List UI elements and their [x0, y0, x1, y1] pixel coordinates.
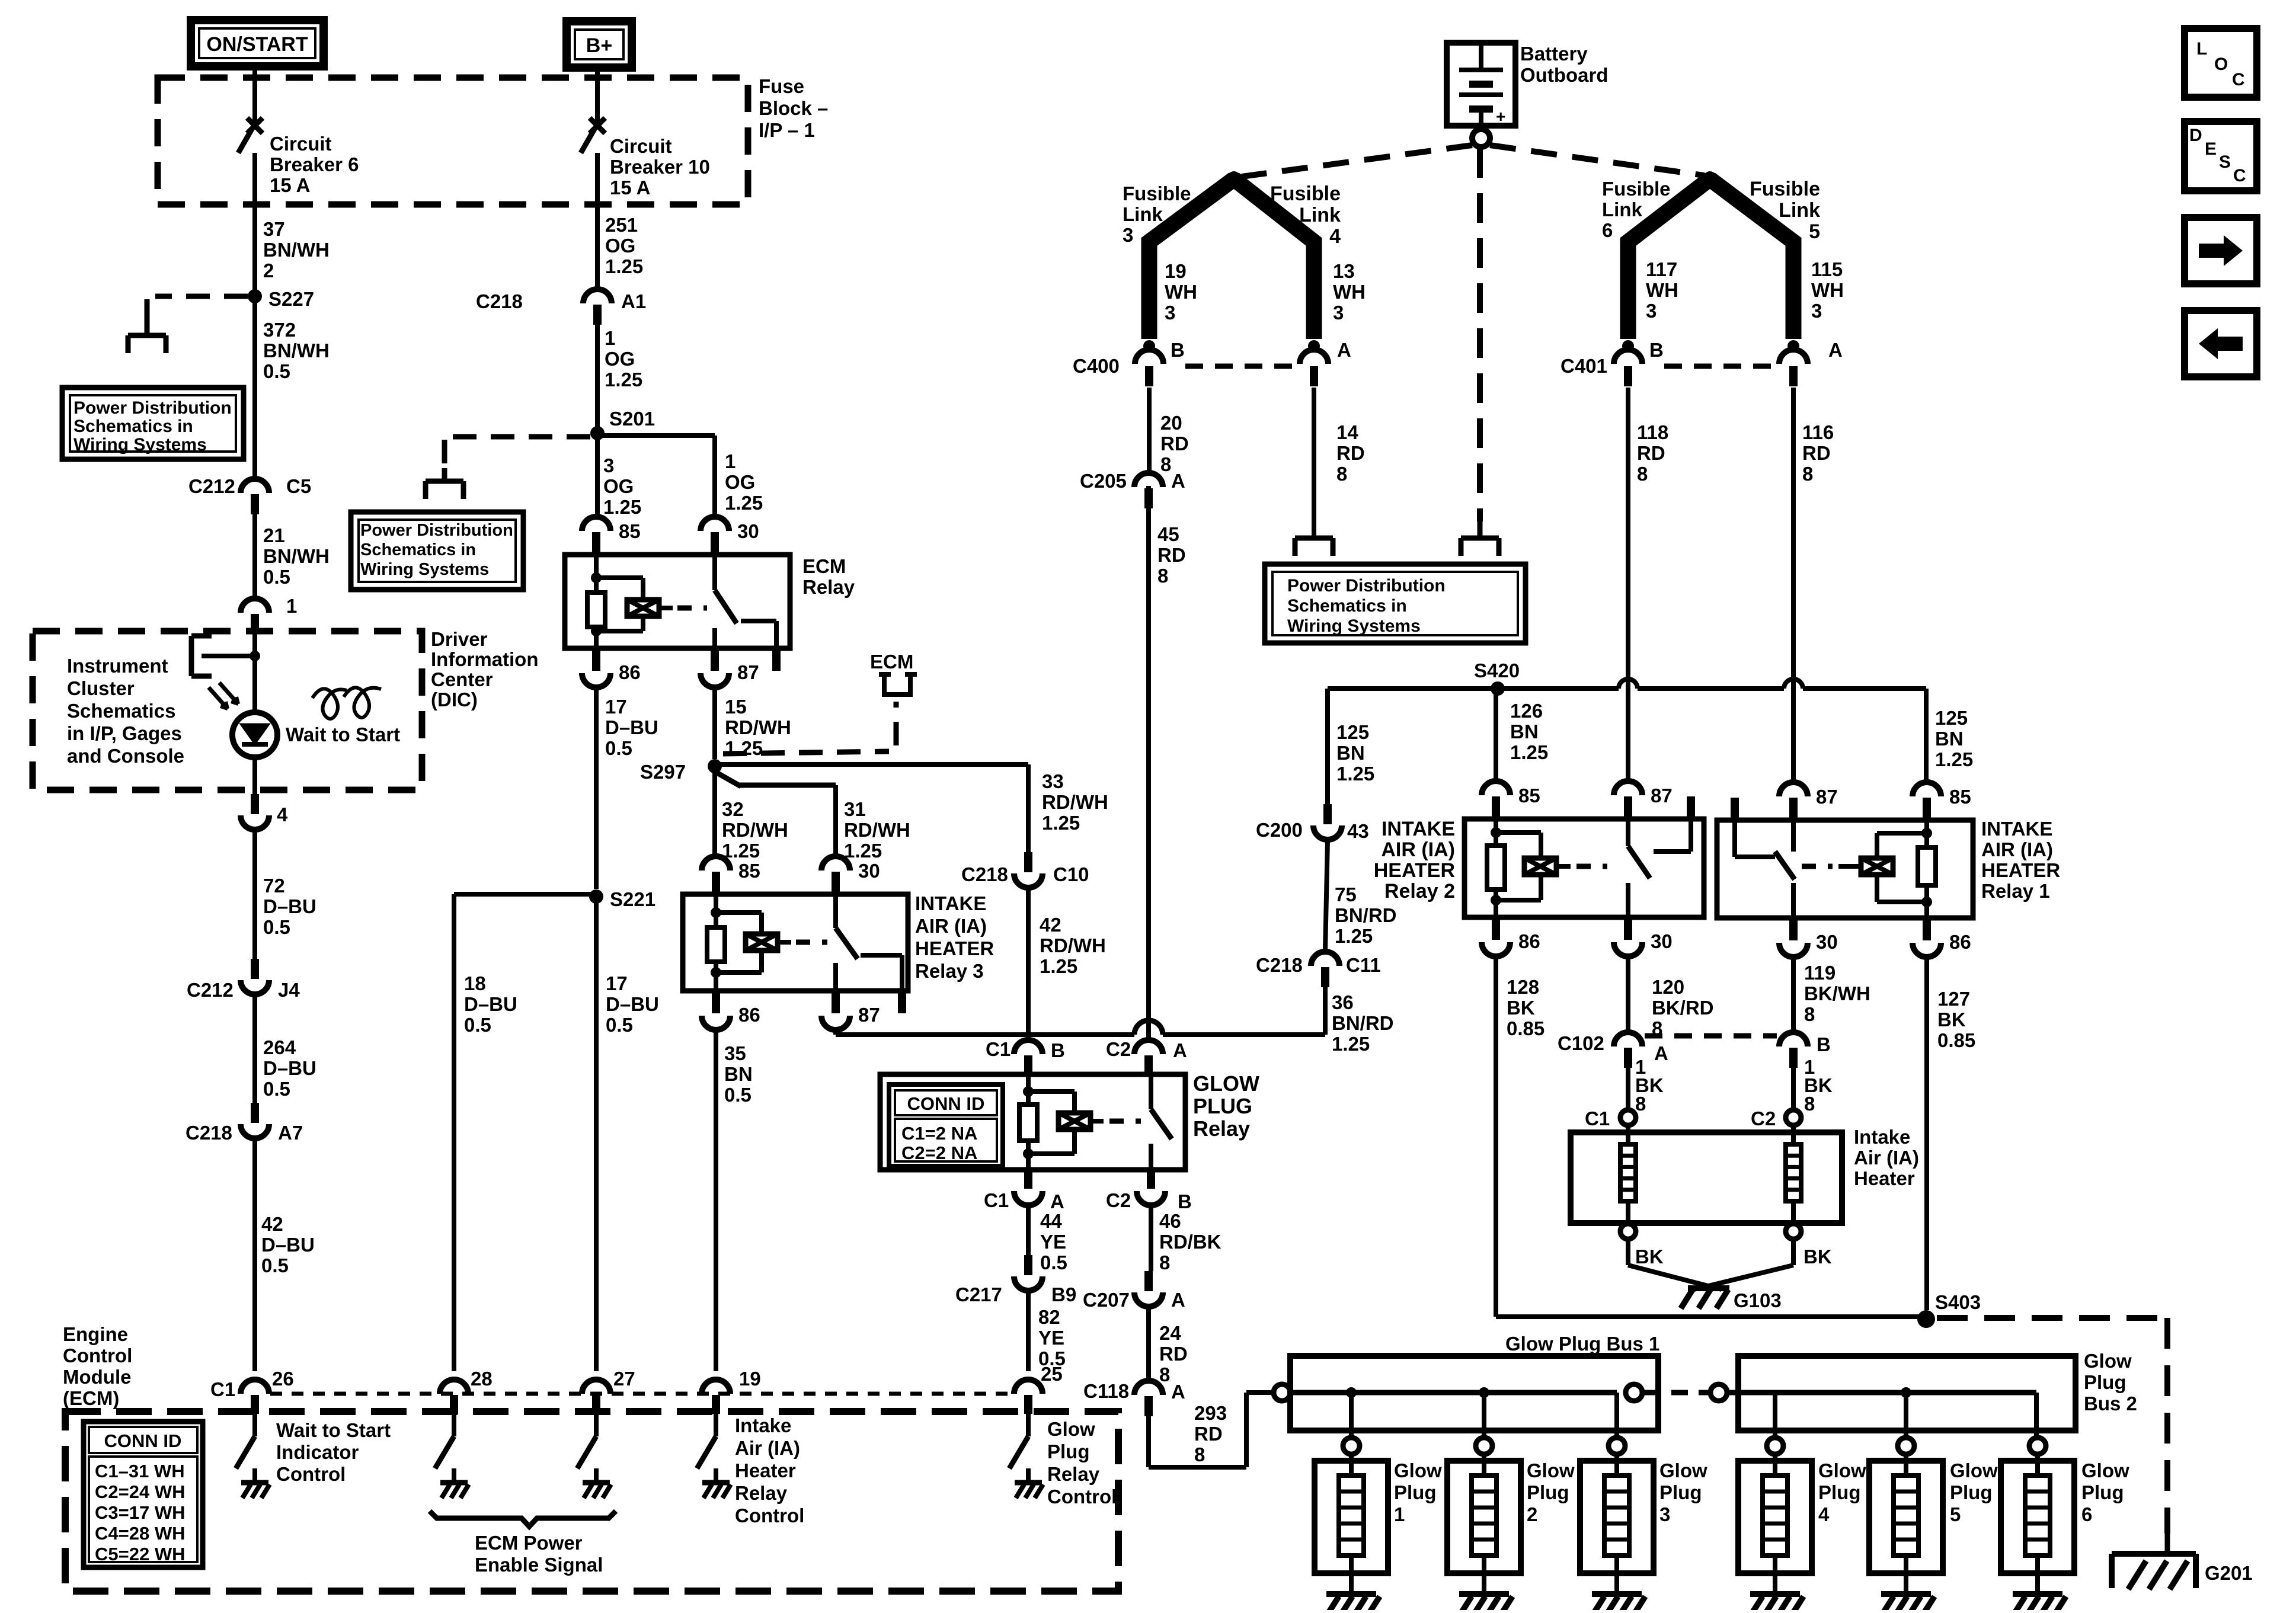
- svg-text:C207: C207: [1083, 1289, 1130, 1311]
- svg-text:119: 119: [1804, 962, 1835, 984]
- label wire 1 BK 8 (left): [1626, 1067, 1630, 1110]
- svg-text:0.5: 0.5: [263, 916, 290, 938]
- svg-text:Glow: Glow: [2084, 1350, 2132, 1372]
- svg-text:INTAKE: INTAKE: [1382, 818, 1455, 840]
- svg-text:Engine: Engine: [63, 1323, 128, 1345]
- fusible link 4: [1234, 179, 1314, 339]
- svg-text:251: 251: [605, 214, 638, 236]
- svg-text:A: A: [1171, 1289, 1185, 1311]
- svg-text:44: 44: [1040, 1210, 1062, 1232]
- svg-text:36: 36: [1332, 991, 1354, 1013]
- svg-text:B: B: [1817, 1033, 1831, 1055]
- wire S420 down to relay2 85: [1494, 689, 1498, 781]
- svg-text:Plug: Plug: [2081, 1481, 2124, 1503]
- label wire 20 RD 8: [1147, 388, 1152, 472]
- svg-text:30: 30: [858, 860, 880, 882]
- label wire 46 RD/BK 8: [1149, 1205, 1153, 1271]
- svg-text:3: 3: [1646, 300, 1657, 322]
- wire dashed battery to link5/6 peak: [1490, 145, 1704, 175]
- svg-text:Glow Plug Bus 1: Glow Plug Bus 1: [1505, 1333, 1659, 1355]
- svg-text:14: 14: [1336, 421, 1358, 443]
- node S227 splice: [248, 289, 262, 303]
- relay3 coil circuit: [714, 894, 718, 927]
- wire S420 corner to relay1 85: [1924, 689, 1929, 781]
- svg-text:C212: C212: [187, 979, 234, 1001]
- svg-text:0.85: 0.85: [1507, 1017, 1544, 1039]
- svg-text:BN: BN: [1510, 721, 1539, 743]
- label wire 118 RD 8: [1626, 388, 1630, 781]
- svg-text:120: 120: [1652, 976, 1684, 998]
- svg-text:C10: C10: [1053, 863, 1089, 885]
- pin C1 / A glow relay bottom: [1024, 1170, 1032, 1189]
- svg-text:Heater: Heater: [735, 1460, 796, 1481]
- svg-text:87: 87: [737, 661, 759, 683]
- connector C218 / A7: [251, 1103, 259, 1123]
- svg-text:Block –: Block –: [759, 97, 828, 119]
- wire S297 down to relay3 85: [712, 766, 717, 856]
- svg-text:1: 1: [286, 595, 297, 617]
- svg-text:86: 86: [1949, 931, 1971, 953]
- svg-text:Circuit: Circuit: [610, 135, 672, 157]
- svg-text:Relay: Relay: [1193, 1116, 1250, 1141]
- svg-text:S227: S227: [268, 288, 314, 310]
- node Power Distribution Schematics box (mid-left): [351, 512, 523, 590]
- node Power Distribution Schematics box (left): [62, 388, 244, 459]
- svg-text:117: 117: [1646, 258, 1677, 280]
- svg-text:WH: WH: [1811, 279, 1844, 301]
- svg-text:27: 27: [613, 1368, 635, 1390]
- svg-text:20: 20: [1160, 412, 1182, 434]
- svg-text:42: 42: [1040, 914, 1061, 936]
- bus box 1: [1290, 1356, 1658, 1430]
- connector C400 B: [1135, 350, 1163, 364]
- svg-text:Breaker 10: Breaker 10: [610, 156, 710, 178]
- connector C212 / C5: [252, 296, 257, 478]
- svg-text:Plug: Plug: [1659, 1481, 1702, 1503]
- label wire 120 BK/RD 8: [1626, 956, 1630, 1031]
- svg-text:YE: YE: [1040, 1231, 1066, 1253]
- svg-text:87: 87: [1816, 786, 1838, 808]
- svg-text:S403: S403: [1935, 1291, 1981, 1313]
- wire down to C200: [1325, 689, 1330, 804]
- svg-text:46: 46: [1159, 1210, 1181, 1232]
- svg-text:RD: RD: [1157, 544, 1186, 566]
- svg-text:Link: Link: [1123, 203, 1163, 225]
- svg-text:0.5: 0.5: [261, 1254, 289, 1276]
- svg-text:8: 8: [1635, 1093, 1646, 1115]
- svg-text:BN/WH: BN/WH: [263, 239, 330, 261]
- svg-text:D–BU: D–BU: [464, 993, 517, 1015]
- wires to G103: [1626, 1239, 1630, 1265]
- svg-text:ECM: ECM: [870, 651, 913, 673]
- label wire 82 YE 0.5 / 25: [1026, 1292, 1031, 1371]
- svg-text:118: 118: [1637, 421, 1668, 443]
- connector C1 / B glow relay top: [1026, 1035, 1031, 1039]
- fusible link 6: [1628, 179, 1710, 339]
- svg-text:Driver: Driver: [431, 628, 488, 650]
- wire dashed S297 to ECM pointer: [723, 751, 889, 754]
- svg-text:43: 43: [1347, 820, 1369, 842]
- svg-text:8: 8: [1159, 1364, 1170, 1385]
- wire LED down / connector 4: [252, 757, 257, 794]
- svg-text:4: 4: [1329, 225, 1341, 248]
- LED Wait to Start indicator: [232, 712, 277, 757]
- svg-text:17: 17: [606, 972, 628, 994]
- connector C218 / C10: [1024, 852, 1032, 872]
- svg-text:35: 35: [724, 1042, 746, 1064]
- svg-text:72: 72: [263, 875, 285, 897]
- svg-text:115: 115: [1811, 258, 1843, 280]
- svg-text:C2=24 WH: C2=24 WH: [95, 1481, 185, 1502]
- svg-text:4: 4: [277, 804, 288, 825]
- node Glow Plug Bus 2 box: [1738, 1356, 2076, 1430]
- svg-text:RD: RD: [1159, 1343, 1188, 1365]
- svg-text:Relay: Relay: [1047, 1463, 1100, 1485]
- svg-text:1.25: 1.25: [725, 492, 763, 514]
- svg-text:C118: C118: [1083, 1380, 1129, 1402]
- pin 87 relay2: [1614, 781, 1642, 795]
- svg-text:C4=28 WH: C4=28 WH: [95, 1523, 185, 1544]
- svg-text:6: 6: [2081, 1503, 2092, 1525]
- relay INTAKE AIR (IA) HEATER Relay 2 box: [1464, 819, 1704, 917]
- svg-text:RD/BK: RD/BK: [1159, 1231, 1221, 1253]
- svg-text:B9: B9: [1051, 1284, 1076, 1305]
- svg-text:87: 87: [1651, 785, 1673, 806]
- off-page fork 2: [442, 468, 447, 481]
- svg-text:BN: BN: [1336, 742, 1365, 764]
- svg-text:Control: Control: [1047, 1486, 1117, 1508]
- svg-text:0.5: 0.5: [724, 1084, 752, 1106]
- svg-text:ECM: ECM: [802, 555, 846, 577]
- svg-text:Schematics in: Schematics in: [73, 417, 193, 436]
- svg-text:87: 87: [858, 1004, 880, 1026]
- wire S201 right branch: [597, 433, 715, 438]
- svg-text:264: 264: [263, 1036, 296, 1058]
- svg-text:15 A: 15 A: [610, 177, 650, 199]
- connector C218 / A1: [583, 289, 612, 303]
- svg-text:CONN ID: CONN ID: [907, 1093, 985, 1114]
- svg-text:O: O: [2214, 55, 2228, 74]
- node S297 splice: [708, 759, 722, 773]
- svg-text:Plug: Plug: [1527, 1481, 1569, 1503]
- svg-text:Plug: Plug: [1818, 1481, 1861, 1503]
- wire 128 BK corner to S403: [1496, 1314, 1926, 1319]
- svg-text:BN/RD: BN/RD: [1332, 1012, 1394, 1034]
- svg-text:1.25: 1.25: [1335, 925, 1373, 947]
- svg-text:Fusible: Fusible: [1270, 183, 1341, 205]
- svg-text:C3=17 WH: C3=17 WH: [95, 1502, 185, 1523]
- svg-text:C218: C218: [186, 1122, 232, 1144]
- telltale lamp symbol: [312, 689, 347, 719]
- node S420 splice and feed line: [1328, 686, 1619, 691]
- svg-text:BN: BN: [724, 1063, 753, 1085]
- svg-text:(ECM): (ECM): [63, 1387, 119, 1409]
- svg-text:C1: C1: [1585, 1108, 1610, 1129]
- terminal rings bottom: [1620, 1224, 1636, 1239]
- wire 14 RD 8 to fork: [1312, 388, 1316, 521]
- svg-text:Fuse: Fuse: [759, 75, 804, 97]
- svg-text:3: 3: [1333, 302, 1344, 324]
- svg-text:S420: S420: [1474, 660, 1520, 681]
- pin stub unlabeled ECM relay: [772, 648, 781, 671]
- relay1 coil: [1861, 858, 1893, 875]
- svg-text:C1: C1: [984, 1189, 1009, 1211]
- svg-text:Glow: Glow: [1047, 1418, 1095, 1440]
- svg-text:15 A: 15 A: [270, 174, 310, 196]
- label wire 17 D-BU 0.5 (below S221): [594, 897, 599, 1371]
- label wire 24 RD 8: [1146, 1308, 1151, 1380]
- pin stub unlabeled relay2: [1687, 796, 1695, 819]
- svg-text:BN/RD: BN/RD: [1335, 904, 1397, 926]
- svg-text:0.5: 0.5: [606, 1014, 633, 1036]
- svg-text:OG: OG: [725, 471, 755, 493]
- svg-text:+: +: [1496, 107, 1505, 126]
- pin 87 ECM relay: [711, 648, 719, 671]
- svg-text:Relay 1: Relay 1: [1981, 880, 2050, 902]
- label wire 21 BN/WH 0.5: [252, 514, 257, 597]
- svg-text:YE: YE: [1038, 1327, 1064, 1349]
- svg-text:126: 126: [1510, 700, 1543, 722]
- svg-text:C: C: [2233, 166, 2246, 185]
- svg-text:B: B: [1649, 339, 1664, 361]
- svg-text:A: A: [1337, 339, 1351, 361]
- svg-text:BN/WH: BN/WH: [263, 545, 330, 567]
- terminal ring C1: [1620, 1110, 1636, 1125]
- svg-text:Control: Control: [63, 1345, 132, 1366]
- svg-text:4: 4: [1818, 1503, 1830, 1525]
- svg-text:3: 3: [1811, 300, 1822, 322]
- svg-text:in I/P, Gages: in I/P, Gages: [67, 722, 182, 744]
- svg-text:C1: C1: [210, 1378, 235, 1400]
- wire 45 RD 8 down to C2/A: [1146, 486, 1151, 1040]
- off-page fork to power distribution (battery): [1478, 521, 1483, 538]
- svg-text:Plug: Plug: [1950, 1481, 1993, 1503]
- node forward arrow box: [2185, 217, 2257, 284]
- pin C2 / B glow relay bottom: [1147, 1170, 1155, 1189]
- pin ECM: [1014, 1380, 1043, 1394]
- svg-text:8: 8: [1336, 463, 1347, 485]
- pin 85 relay3: [702, 856, 730, 870]
- circuit breaker CB10 (Circuit Breaker 10 15 A): [590, 118, 605, 133]
- glow plug 3: [1609, 1438, 1625, 1454]
- svg-text:Link: Link: [1299, 204, 1341, 226]
- svg-text:8: 8: [1194, 1444, 1205, 1465]
- svg-text:125: 125: [1336, 721, 1369, 743]
- svg-text:RD/WH: RD/WH: [1040, 934, 1106, 956]
- svg-text:Heater: Heater: [1854, 1167, 1915, 1189]
- node Instrument Cluster dashed box (DIC area): [33, 631, 422, 790]
- node CONN ID table ECM: [84, 1422, 203, 1567]
- svg-text:1.25: 1.25: [1040, 955, 1077, 977]
- svg-text:PLUG: PLUG: [1193, 1094, 1252, 1118]
- svg-text:E: E: [2205, 139, 2217, 159]
- battery terminal ring: [1472, 129, 1490, 147]
- off-page fork (14 RD): [1295, 536, 1333, 541]
- svg-text:G103: G103: [1734, 1289, 1782, 1311]
- svg-text:372: 372: [263, 319, 296, 341]
- svg-text:G201: G201: [2205, 1562, 2253, 1584]
- svg-text:21: 21: [263, 524, 285, 546]
- relay3 switch: [833, 894, 838, 928]
- wire tap bracket inside cluster: [191, 633, 212, 639]
- svg-text:30: 30: [737, 520, 759, 542]
- svg-text:85: 85: [738, 860, 760, 882]
- svg-text:Glow: Glow: [1527, 1460, 1575, 1481]
- svg-text:S201: S201: [609, 408, 655, 430]
- glow relay switch: [1149, 1075, 1153, 1109]
- svg-text:30: 30: [1651, 930, 1673, 952]
- svg-text:and Console: and Console: [67, 745, 184, 767]
- svg-text:Plug: Plug: [2084, 1371, 2126, 1393]
- svg-text:1: 1: [725, 450, 736, 472]
- relay ECM Relay box: [565, 555, 790, 648]
- svg-text:28: 28: [471, 1368, 493, 1390]
- svg-text:S: S: [2219, 152, 2231, 172]
- svg-text:Link: Link: [1602, 199, 1642, 220]
- label wire 3 OG 1.25: [595, 437, 600, 517]
- label wire 119 BK/WH 8: [1791, 957, 1796, 1031]
- label wire 44 YE 0.5: [1026, 1205, 1031, 1255]
- svg-text:Glow: Glow: [2081, 1460, 2129, 1481]
- svg-text:C1: C1: [986, 1038, 1011, 1060]
- wire C10 into junction: [1016, 1032, 1040, 1037]
- brace ECM Power Enable Signal: [430, 1511, 616, 1526]
- node Power Distribution Schematics box (middle): [1265, 564, 1526, 643]
- node back arrow box: [2185, 311, 2257, 377]
- terminal ring C2: [1786, 1110, 1801, 1125]
- svg-text:RD: RD: [1637, 442, 1665, 464]
- svg-text:3: 3: [1659, 1503, 1670, 1525]
- svg-text:Information: Information: [431, 648, 538, 670]
- svg-text:0.85: 0.85: [1937, 1029, 1975, 1051]
- svg-text:BN/WH: BN/WH: [263, 340, 330, 361]
- node ECM off-page pointer: [879, 674, 917, 695]
- svg-text:HEATER: HEATER: [915, 937, 994, 959]
- pin 30 relay1: [1789, 918, 1798, 940]
- svg-text:I/P – 1: I/P – 1: [759, 119, 815, 141]
- pin 30 relay2: [1624, 917, 1632, 940]
- label wire 35 BN 0.5: [714, 1030, 718, 1371]
- svg-text:Module: Module: [63, 1366, 131, 1388]
- svg-text:ECM Power: ECM Power: [475, 1532, 583, 1554]
- svg-text:86: 86: [1518, 930, 1540, 952]
- svg-text:J4: J4: [278, 979, 300, 1001]
- svg-text:Intake: Intake: [735, 1414, 791, 1436]
- svg-text:19: 19: [1165, 260, 1187, 282]
- svg-text:D–BU: D–BU: [263, 895, 316, 917]
- svg-text:C2=2 NA: C2=2 NA: [901, 1142, 977, 1163]
- pin 27 ECM: [582, 1380, 610, 1394]
- svg-text:B: B: [1171, 339, 1185, 361]
- svg-text:WH: WH: [1333, 281, 1366, 303]
- svg-text:C212: C212: [188, 475, 235, 497]
- svg-text:C11: C11: [1346, 954, 1381, 976]
- connector C205 A: [1134, 473, 1163, 487]
- node Fuse Block dashed box: [158, 78, 748, 204]
- node S221 splice: [589, 889, 603, 904]
- svg-text:A1: A1: [621, 290, 646, 312]
- svg-text:D: D: [2189, 126, 2202, 145]
- svg-text:82: 82: [1038, 1306, 1060, 1328]
- label wire 17 D-BU 0.5: [594, 687, 599, 889]
- svg-text:Breaker 6: Breaker 6: [270, 153, 359, 175]
- svg-text:0.5: 0.5: [263, 566, 290, 588]
- node S201 splice: [590, 426, 605, 440]
- relay INTAKE AIR (IA) HEATER Relay 1 box: [1717, 820, 1973, 918]
- svg-text:RD/WH: RD/WH: [1042, 791, 1108, 813]
- wire dashed battery to link3/4 peak: [1242, 145, 1472, 177]
- wire ON/START down to breaker: [252, 66, 257, 123]
- svg-text:C218: C218: [1256, 954, 1303, 976]
- heater element right: [1791, 1125, 1796, 1144]
- svg-text:Cluster: Cluster: [67, 677, 135, 699]
- label wire 75 BN/RD 1.25: [1325, 841, 1328, 950]
- svg-text:A: A: [1828, 339, 1843, 361]
- svg-text:RD/WH: RD/WH: [725, 716, 791, 738]
- svg-text:BN: BN: [1935, 728, 1964, 750]
- svg-text:C2: C2: [1751, 1108, 1776, 1129]
- fusible link 5: [1710, 179, 1793, 339]
- label wire 264 D-BU 0.5: [252, 996, 257, 1103]
- svg-text:25: 25: [1041, 1363, 1063, 1385]
- svg-text:D–BU: D–BU: [261, 1234, 315, 1256]
- svg-text:5: 5: [1950, 1503, 1961, 1525]
- svg-text:8: 8: [1159, 1252, 1170, 1273]
- svg-text:CONN ID: CONN ID: [104, 1430, 182, 1451]
- svg-text:C1–31 WH: C1–31 WH: [95, 1461, 185, 1481]
- battery Battery Outboard: [1447, 43, 1515, 126]
- svg-text:0.5: 0.5: [605, 737, 632, 759]
- svg-text:Circuit: Circuit: [270, 133, 332, 155]
- node ON/START feed box: [191, 20, 324, 66]
- svg-text:B+: B+: [586, 34, 612, 57]
- svg-text:Glow: Glow: [1950, 1460, 1998, 1481]
- connector C2 / A glow relay top: [1134, 1040, 1163, 1054]
- svg-text:30: 30: [1816, 931, 1838, 953]
- label wire 72 D-BU 0.5: [252, 831, 257, 959]
- svg-text:HEATER: HEATER: [1981, 859, 2060, 881]
- label wire 1 BK 8 (right): [1791, 1067, 1796, 1110]
- svg-text:1: 1: [605, 327, 615, 349]
- connector C401 A: [1779, 350, 1808, 364]
- connector C401 B: [1614, 350, 1642, 364]
- svg-text:24: 24: [1159, 1322, 1181, 1344]
- connector C400 A: [1300, 350, 1328, 364]
- svg-text:Wiring Systems: Wiring Systems: [73, 435, 207, 455]
- svg-text:AIR (IA): AIR (IA): [915, 915, 987, 937]
- label wire 1 OG 1.25: [595, 324, 600, 433]
- svg-text:OG: OG: [605, 235, 635, 257]
- fusible link 3: [1149, 179, 1234, 339]
- svg-text:13: 13: [1333, 260, 1355, 282]
- svg-text:OG: OG: [605, 348, 635, 370]
- svg-text:2: 2: [263, 260, 274, 281]
- svg-text:B: B: [1051, 1039, 1065, 1061]
- svg-text:1.25: 1.25: [605, 255, 643, 277]
- svg-text:5: 5: [1809, 220, 1820, 243]
- svg-text:HEATER: HEATER: [1374, 859, 1455, 882]
- heater Intake Air (IA) Heater box: [1571, 1132, 1842, 1223]
- svg-text:8: 8: [1637, 463, 1648, 485]
- glow plug 5: [1898, 1438, 1914, 1454]
- pin 85 relay1: [1913, 782, 1941, 796]
- svg-text:0.5: 0.5: [263, 360, 290, 382]
- svg-text:AIR (IA): AIR (IA): [1381, 838, 1455, 861]
- svg-text:Wiring Systems: Wiring Systems: [360, 560, 489, 579]
- svg-text:75: 75: [1335, 884, 1357, 905]
- svg-text:Wait to Start: Wait to Start: [276, 1419, 391, 1441]
- relay2 coil: [1494, 819, 1498, 846]
